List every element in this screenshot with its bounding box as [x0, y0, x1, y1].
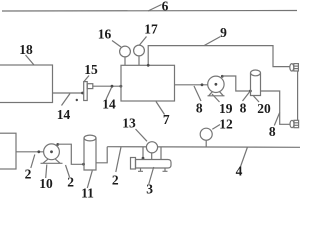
nozzle top — [290, 64, 294, 71]
svg-text:4: 4 — [236, 163, 243, 178]
node dot pump19 inlet — [201, 83, 204, 86]
svg-text:14: 14 — [102, 96, 116, 111]
pump 19 — [208, 76, 224, 92]
node dot pipe9 on box7 — [147, 64, 150, 67]
mixer 3 right leg — [163, 168, 168, 171]
cylinder 20 — [251, 70, 261, 76]
valve 13 stem — [151, 153, 153, 160]
svg-text:10: 10 — [39, 176, 53, 191]
label 13 leader — [136, 129, 148, 141]
node dot box7 inlet — [120, 85, 123, 88]
mixer 3 cap — [131, 158, 136, 170]
svg-text:14: 14 — [57, 107, 71, 122]
svg-text:11: 11 — [81, 185, 94, 200]
label 4 leader — [240, 147, 248, 168]
label 16 leader — [112, 41, 121, 48]
svg-text:3: 3 — [146, 182, 153, 197]
svg-text:13: 13 — [122, 116, 136, 131]
box 18 — [0, 65, 53, 103]
label 6 leader — [148, 5, 162, 12]
label 2 leader (first) — [31, 155, 35, 169]
svg-text:7: 7 — [163, 112, 170, 127]
label 15 leader — [84, 76, 89, 82]
pump 10 — [44, 144, 60, 160]
wire nozzles vertical — [297, 71, 299, 120]
label 18 leader — [26, 55, 35, 65]
node dot on wire — [111, 85, 114, 88]
pump 10 outlet dot — [56, 143, 59, 146]
gauge 12 — [200, 128, 212, 140]
svg-text:2: 2 — [25, 167, 32, 182]
label 8 leader (first) — [194, 86, 201, 101]
svg-text:2: 2 — [67, 174, 74, 189]
box 1 — [0, 133, 16, 169]
svg-text:17: 17 — [144, 22, 158, 37]
svg-text:16: 16 — [98, 27, 112, 42]
gauge 17 — [134, 45, 145, 56]
svg-text:20: 20 — [257, 101, 271, 116]
pipe filter11 riser — [96, 147, 107, 163]
pipe cylinder20 to bottom nozzle — [261, 91, 291, 124]
nozzle bottom — [290, 120, 294, 127]
label 10 leader — [46, 165, 47, 179]
svg-text:6: 6 — [162, 0, 169, 14]
wire box7 to pump19 — [175, 84, 208, 86]
node dot pump10 inlet — [37, 150, 40, 153]
svg-text:9: 9 — [220, 25, 227, 40]
node dot below valve — [76, 99, 78, 101]
gauge 16 — [120, 46, 131, 57]
label 7 leader — [156, 102, 165, 115]
drop pipe to mixer left — [142, 147, 144, 160]
label 3 leader — [149, 167, 154, 184]
label 8 leader (second) — [243, 92, 250, 101]
label 17 leader — [140, 37, 147, 46]
wire box1 to pump10 — [16, 151, 44, 153]
svg-text:12: 12 — [219, 116, 233, 131]
label 20 leader — [254, 96, 260, 102]
node dot valve15 inlet — [81, 92, 84, 95]
label 12 leader — [212, 125, 220, 130]
label 2 leader (second) — [66, 165, 70, 177]
mixer 3 left leg — [138, 168, 143, 171]
label 19 leader — [212, 94, 220, 102]
valve 15 body — [84, 82, 88, 101]
label 11 leader — [87, 171, 92, 188]
box 7 — [121, 65, 175, 101]
node dot cylinder20 inlet — [249, 90, 252, 93]
svg-text:15: 15 — [84, 62, 98, 77]
pump 19 base — [208, 92, 225, 96]
pipe pump19 to cylinder20 — [222, 76, 250, 91]
label 2 leader (third) — [116, 147, 121, 172]
label 9 leader — [204, 37, 221, 46]
drop pipe to mixer right — [160, 147, 162, 160]
label 14 leader right — [106, 88, 112, 100]
mixer 3 body — [136, 160, 172, 169]
svg-text:8: 8 — [269, 124, 276, 139]
wire box18 to valve15 — [53, 92, 84, 94]
wire top main line 6 — [2, 10, 297, 13]
wire bottom main line 4 — [107, 146, 300, 149]
node dot filter11 inlet — [82, 163, 85, 166]
pipe 9 — [148, 46, 290, 67]
svg-text:8: 8 — [240, 101, 247, 116]
svg-text:18: 18 — [19, 42, 33, 57]
wire valve15 to box7 — [93, 85, 121, 87]
valve 13 circle — [146, 142, 157, 153]
label 8 leader (third) — [274, 113, 279, 126]
node dot mixer inlet — [142, 157, 145, 160]
label 14 leader left — [62, 94, 71, 106]
pump 10 base — [41, 159, 63, 163]
filter 11 — [84, 135, 96, 141]
svg-text:2: 2 — [112, 173, 119, 188]
pump 19 outlet dot — [221, 75, 224, 78]
svg-text:19: 19 — [219, 101, 233, 116]
svg-text:8: 8 — [196, 100, 203, 115]
pipe pump10 to filter11 — [58, 144, 84, 164]
valve 15 stub — [87, 84, 93, 89]
